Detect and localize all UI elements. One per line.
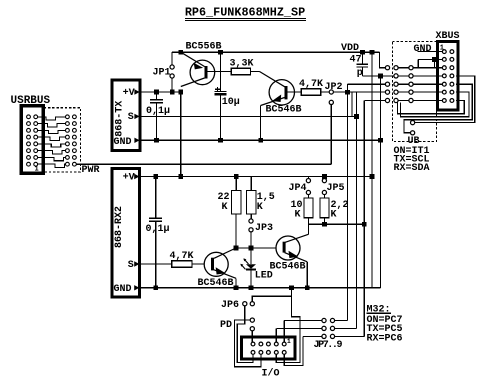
wire bus vertical B xyxy=(356,92,358,328)
pin pair row1 right xyxy=(394,66,398,70)
wire collector vertical to +V rail RX2 xyxy=(180,91,182,177)
pin S TX xyxy=(134,114,139,119)
svg-text:JP4: JP4 xyxy=(289,183,307,194)
wire JP8 left xyxy=(276,327,322,329)
wire Q4 emitter vertical xyxy=(306,262,308,288)
svg-text:0,1µ: 0,1µ xyxy=(146,224,170,235)
wire row4 mid xyxy=(398,91,409,93)
svg-text:GND: GND xyxy=(414,44,432,55)
node junction R7 bottom xyxy=(322,222,327,227)
node junction +V JP5 xyxy=(322,174,327,179)
jumper JP3 xyxy=(249,219,253,223)
wire PD lower to I/O pin xyxy=(251,331,253,342)
svg-text:S: S xyxy=(128,112,134,123)
wire bus vertical A xyxy=(347,84,349,320)
pin USRBUS row8 xyxy=(27,162,31,166)
svg-text:BC546B: BC546B xyxy=(198,278,234,289)
wire JP3 lower stub xyxy=(250,232,252,248)
connector USRBUS xyxy=(21,106,43,173)
node junction VDD-47p xyxy=(360,50,365,55)
node junction VDD-vertical xyxy=(370,50,375,55)
capacitor C3 0,1u plates xyxy=(149,217,162,219)
wire Q3 emitter xyxy=(214,270,236,279)
pin +V RX xyxy=(134,174,139,179)
node junction GND Q2 emitter xyxy=(258,138,263,143)
capacitor C2 10u bottom lead xyxy=(219,96,221,141)
wire row2 branch vertical xyxy=(417,59,419,67)
svg-text:4,7K: 4,7K xyxy=(170,251,194,262)
pin USRBUS row7 xyxy=(27,156,31,160)
svg-text:RX=PC6: RX=PC6 xyxy=(367,333,403,344)
svg-text:868-TX: 868-TX xyxy=(114,101,125,137)
module 868-RX2 xyxy=(112,168,140,297)
capacitor C3 0,1u bottom lead xyxy=(155,222,157,288)
jumper JP8 xyxy=(322,326,326,330)
pin UB lower xyxy=(411,131,415,135)
transistor Q2 BC546B xyxy=(269,80,294,105)
pin module row3 xyxy=(66,128,70,132)
pin module row4 xyxy=(66,135,70,139)
pin I/O bottom 3 xyxy=(267,351,271,355)
pin XBUS row7 xyxy=(442,99,446,103)
arrow LED emission 2 xyxy=(241,264,246,269)
wire branch to module row1 xyxy=(434,59,436,67)
node junction +V C3 xyxy=(153,174,158,179)
wire Q3 collector xyxy=(214,248,236,258)
capacitor C4 47p plates xyxy=(357,63,369,65)
wire bus vertical A2 xyxy=(351,92,353,116)
capacitor C1 0,1u top lead xyxy=(156,92,158,99)
wire JP2 lower stub xyxy=(330,104,332,164)
pin pair row1 left xyxy=(385,66,389,70)
wire GND branch to I/O xyxy=(276,288,300,363)
capacitor C3 0,1u top lead xyxy=(155,177,157,218)
wire JP8 right xyxy=(335,327,357,329)
wire JP1 top stub xyxy=(171,52,173,65)
wire Q4 emitter xyxy=(285,253,308,262)
node junction GND line end xyxy=(378,138,383,143)
svg-text:K: K xyxy=(257,202,263,213)
wire Q4 collector xyxy=(285,234,308,242)
led LED1 cathode bar xyxy=(246,269,256,271)
wire 868-TX +V rail xyxy=(140,91,181,93)
pin +V TX xyxy=(134,89,139,94)
pin I/O top 5 xyxy=(282,342,286,346)
wire 868-RX2 S line xyxy=(139,263,171,265)
transistor Q4 BC546B xyxy=(276,236,300,260)
pin I/O bottom 5 xyxy=(282,351,286,355)
wire bus vertical E VDD xyxy=(371,52,373,288)
resistor R3 22K xyxy=(232,190,241,214)
svg-text:RP6_FUNK868MHZ_SP: RP6_FUNK868MHZ_SP xyxy=(185,6,305,20)
wire JP5 to R7 xyxy=(323,195,325,198)
module 868-TX xyxy=(112,80,140,150)
resistor R3 22K top lead xyxy=(235,177,237,191)
wire Q1 base xyxy=(207,71,231,73)
wire R1 right xyxy=(251,71,260,73)
node junction row2 branch xyxy=(432,57,437,62)
resistor R2 4,7K xyxy=(301,89,321,96)
svg-text:PWR: PWR xyxy=(82,165,100,176)
wire Q2 emitter vertical xyxy=(260,106,262,141)
svg-text:p: p xyxy=(357,68,363,79)
svg-text:JP5: JP5 xyxy=(327,183,345,194)
node junction JP2 line xyxy=(345,90,350,95)
module dashed box xyxy=(392,41,436,141)
pin pair row3 right xyxy=(394,82,398,86)
pin pair row4 left xyxy=(385,90,389,94)
wire USRBUS row4 zigzag xyxy=(38,137,66,140)
wire row1 to XBUS xyxy=(413,67,442,69)
svg-text:PD: PD xyxy=(220,320,232,331)
node junction GND JP6 branch xyxy=(289,285,294,290)
resistor R6 10K xyxy=(304,198,313,218)
node junction E +V rail xyxy=(370,174,375,179)
wire 868-TX S line xyxy=(140,115,357,117)
wire row5 left xyxy=(364,100,385,102)
pin module row1 xyxy=(66,115,70,119)
wire Q4 collector vertical xyxy=(307,224,309,234)
arrow Q2 emitter NPN xyxy=(272,95,281,103)
jumper JP5 xyxy=(322,179,326,183)
wire JP2 to XBUS row4 xyxy=(333,91,385,93)
pin XBUS row1 xyxy=(442,50,446,54)
svg-text:JP6: JP6 xyxy=(221,300,239,311)
transistor Q1 BC556B xyxy=(190,60,215,85)
pin UB upper xyxy=(411,121,415,125)
wire bus vertical F GND xyxy=(380,76,382,288)
pin XBUS row6 xyxy=(442,90,446,94)
wire row3 to XBUS xyxy=(413,83,442,85)
wire Q2 collector xyxy=(260,72,285,87)
jumper JP9 xyxy=(322,334,326,338)
wire I/O top pin4 up xyxy=(275,328,277,342)
wire VDD top rail xyxy=(172,51,379,53)
svg-text:10µ: 10µ xyxy=(222,97,240,108)
pin I/O top 1 xyxy=(251,342,255,346)
svg-text:47: 47 xyxy=(350,55,362,66)
wire JP4 to R6 xyxy=(307,195,309,198)
pin I/O top 4 xyxy=(274,342,278,346)
wire R5 to Q3 base xyxy=(192,263,210,265)
pin XBUS row4 xyxy=(442,74,446,78)
wire resistor bottom line xyxy=(308,223,364,225)
jumper JP4 top stub xyxy=(307,177,309,179)
node junction +V collector vert xyxy=(178,174,183,179)
capacitor C1 0,1u bottom lead xyxy=(156,103,158,140)
wire loop XBUS row5 right to UB lower xyxy=(404,84,472,133)
node junction F row2 xyxy=(378,74,383,79)
jumper JP6 xyxy=(243,302,247,306)
wire 868-RX2 +V rail xyxy=(139,176,372,178)
wire USRBUS row3 zigzag xyxy=(38,130,66,133)
wire loop XBUS row6 right xyxy=(401,92,470,117)
wire Q1 collector xyxy=(181,78,205,87)
wire JP9 right xyxy=(335,335,365,337)
pin USRBUS row1 xyxy=(27,115,31,119)
svg-text:S: S xyxy=(128,260,134,271)
node junction GND C2 xyxy=(218,138,223,143)
node junction LED line xyxy=(249,246,254,251)
wire USRBUS row1 zigzag xyxy=(38,117,66,120)
node junction VDD-emitter xyxy=(178,50,183,55)
wire I/O bottom pin5 wrap xyxy=(284,336,303,365)
node junction GND C3 xyxy=(153,285,158,290)
wire row5 to XBUS xyxy=(413,100,442,102)
node junction +V R3 xyxy=(234,174,239,179)
pin USRBUS row4 xyxy=(27,135,31,139)
capacitor C1 0,1u plates xyxy=(150,99,163,101)
svg-text:+V: +V xyxy=(123,172,135,183)
wire USRBUS row8 zigzag xyxy=(38,164,66,167)
pin module row5 xyxy=(66,142,70,146)
pin module row5 xyxy=(409,98,413,102)
wire row5 mid xyxy=(398,100,409,102)
wire GND label to XBUS pin1 xyxy=(418,50,442,53)
pin GND TX xyxy=(134,138,139,143)
capacitor C4 47p bottom lead xyxy=(361,68,363,76)
pin pair row2 right xyxy=(394,74,398,78)
pin pair row3 left xyxy=(385,82,389,86)
jumper JP5 top stub xyxy=(323,177,325,179)
pin module row6 xyxy=(66,149,70,153)
wire R2 right to JP2 xyxy=(321,91,330,93)
pin GND RX xyxy=(134,285,139,290)
resistor R4 1,5K top lead xyxy=(250,177,252,191)
wire USRBUS row2 zigzag xyxy=(38,124,66,127)
svg-text:JP3: JP3 xyxy=(255,223,273,234)
pin module row1 xyxy=(409,66,413,70)
pin USRBUS row3 xyxy=(27,128,31,132)
arrow Q4 emitter NPN xyxy=(289,251,299,258)
resistor R7 2,2K xyxy=(320,198,329,218)
svg-text:I/O: I/O xyxy=(262,368,280,380)
wire R7 bottom xyxy=(323,218,325,225)
wire row3 left xyxy=(348,83,386,85)
svg-text:BC556B: BC556B xyxy=(186,42,222,53)
pin USRBUS row6 xyxy=(27,149,31,153)
wire row2 47p to XBUS xyxy=(362,75,441,77)
wire R4 bottom to JP3 xyxy=(250,214,252,219)
resistor R1 3,3K xyxy=(231,68,250,74)
arrow LED emission 1 xyxy=(244,259,249,264)
wire XBUS row2 left xyxy=(418,58,442,60)
wire loop XBUS row7 right xyxy=(398,101,465,114)
wire R6 bottom xyxy=(307,218,309,225)
node junction GND Q3 xyxy=(234,285,239,290)
node junction +V C1 xyxy=(154,90,159,95)
pin module row8 xyxy=(66,162,70,166)
label C2 polarity + xyxy=(215,88,220,90)
pin pair row4 right xyxy=(394,90,398,94)
wire Q1 emitter xyxy=(181,52,205,66)
pin XBUS row2 xyxy=(442,58,446,62)
wire VDD corner to row1 xyxy=(380,52,386,67)
pin module row7 xyxy=(66,156,70,160)
jumper JP7 xyxy=(322,318,326,322)
wire LED top lead xyxy=(250,248,252,264)
wire LED base line xyxy=(236,247,282,249)
wire Q3 emitter vertical xyxy=(235,278,237,288)
wire row1 mid xyxy=(398,67,409,69)
pin USRBUS row2 xyxy=(27,122,31,126)
node junction VDD-C2 xyxy=(218,50,223,55)
arrow Q1 emitter PNP xyxy=(194,63,203,70)
capacitor C2 10u top lead xyxy=(219,52,221,91)
svg-text:K: K xyxy=(222,202,228,213)
svg-text:JP1: JP1 xyxy=(153,68,171,79)
wire JP9 left xyxy=(303,335,322,337)
resistor R4 1,5K xyxy=(247,190,256,214)
wire JP1 bottom stub xyxy=(171,78,173,91)
pin pair row5 left xyxy=(385,98,389,102)
wire 868-TX GND line xyxy=(140,139,381,141)
svg-text:GND: GND xyxy=(114,137,132,148)
wire JP6 pin2 up xyxy=(252,296,291,302)
node junction +V collector xyxy=(178,90,183,95)
svg-text:K: K xyxy=(331,209,337,220)
wire row3 mid xyxy=(398,83,409,85)
svg-text:1: 1 xyxy=(35,166,39,174)
node junction GND C1 xyxy=(154,138,159,143)
pin S RX xyxy=(134,261,139,266)
svg-text:BC546B: BC546B xyxy=(270,261,306,272)
pin module row2 xyxy=(409,74,413,78)
node junction +V JP1 xyxy=(170,90,175,95)
pin XBUS row5 xyxy=(442,82,446,86)
wire USRBUS row5 zigzag xyxy=(38,144,66,147)
wire JP6 pin1 down xyxy=(237,306,253,363)
svg-text:3,3K: 3,3K xyxy=(230,58,254,69)
arrow Q3 emitter NPN xyxy=(216,267,226,274)
svg-text:GND: GND xyxy=(114,284,132,295)
connector XBUS xyxy=(438,42,459,111)
node junction collector R3 xyxy=(234,246,239,251)
wire R3 bottom to collector xyxy=(235,214,237,248)
wire loop XBUS row4 right to UB upper xyxy=(415,76,475,123)
capacitor C2 10u plates xyxy=(214,90,226,92)
node junction D resistor line xyxy=(362,222,367,227)
pin I/O top 3 xyxy=(267,342,271,346)
wire Q2 emitter xyxy=(261,98,285,106)
pin module row2 xyxy=(66,122,70,126)
wire USRBUS row6 zigzag xyxy=(38,151,66,154)
transistor Q3 BC546B xyxy=(204,252,228,276)
module USRBUS dashed box xyxy=(44,108,81,172)
svg-text:+V: +V xyxy=(123,88,135,99)
connector I/O xyxy=(242,337,296,359)
wire JP7 right xyxy=(335,320,348,322)
svg-text:868-RX2: 868-RX2 xyxy=(114,206,125,248)
wire bus vertical D xyxy=(363,101,365,337)
node junction GND Q4 xyxy=(305,285,310,290)
resistor R5 4,7K xyxy=(172,261,192,268)
svg-text:BC546B: BC546B xyxy=(266,104,302,115)
jumper JP4 xyxy=(306,179,310,183)
wire row4 to XBUS xyxy=(413,91,442,93)
svg-text:VDD: VDD xyxy=(341,43,359,54)
pin I/O top 2 xyxy=(259,342,263,346)
wire 868-RX2 GND rail xyxy=(139,287,380,289)
pin PD upper xyxy=(250,318,254,322)
wire PD loop xyxy=(235,320,261,367)
jumper JP1 xyxy=(170,65,174,69)
pin XBUS row3 xyxy=(442,66,446,70)
capacitor C4 47p top lead xyxy=(361,52,363,63)
svg-text:JP7..9: JP7..9 xyxy=(314,340,343,351)
svg-text:K: K xyxy=(295,209,301,220)
wire PWR line xyxy=(76,163,331,165)
led LED1 triangle xyxy=(246,264,256,269)
pin PD lower xyxy=(250,327,254,331)
pin USRBUS row5 xyxy=(27,142,31,146)
pin module row3 xyxy=(409,82,413,86)
svg-text:4,7K: 4,7K xyxy=(299,79,323,90)
node junction GND LED xyxy=(249,285,254,290)
wire Q2 base xyxy=(288,91,302,93)
svg-text:1: 1 xyxy=(287,338,291,345)
svg-text:RX=SDA: RX=SDA xyxy=(394,163,430,174)
svg-text:0,1µ: 0,1µ xyxy=(146,106,170,117)
wire JP7 left xyxy=(284,320,322,322)
pin module row4 xyxy=(409,90,413,94)
pin I/O bottom 4 xyxy=(274,351,278,355)
pin pair row5 right xyxy=(394,98,398,102)
jumper JP2 xyxy=(329,90,333,94)
pin I/O bottom 2 xyxy=(259,351,263,355)
wire USRBUS row7 zigzag xyxy=(38,157,66,160)
pin I/O bottom 1 xyxy=(251,351,255,355)
wire I/O top pin5 up xyxy=(283,321,285,343)
wire LED bottom lead xyxy=(250,270,252,288)
node junction S line end xyxy=(354,114,359,119)
